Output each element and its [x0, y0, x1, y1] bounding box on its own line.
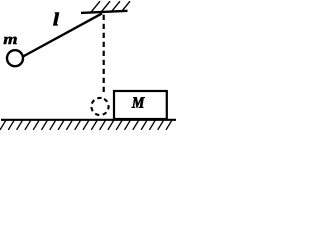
- ceiling hatch 4: [121, 1, 130, 12]
- label l: [53, 13, 59, 26]
- floor line: [1, 119, 176, 121]
- block M: [114, 91, 167, 119]
- dashed circle (ball at lowest point): [88, 95, 111, 118]
- label M: [132, 97, 145, 107]
- ceiling hatch 2: [101, 1, 110, 12]
- ceiling hatch 3: [111, 1, 120, 12]
- dashed vertical line: [103, 15, 105, 92]
- string l (wire): [23, 13, 102, 56]
- label m: [4, 37, 17, 44]
- ball m: [7, 50, 23, 66]
- floor hatches: [0, 120, 172, 129]
- ceiling line: [81, 11, 128, 13]
- ceiling hatch 1: [91, 1, 100, 12]
